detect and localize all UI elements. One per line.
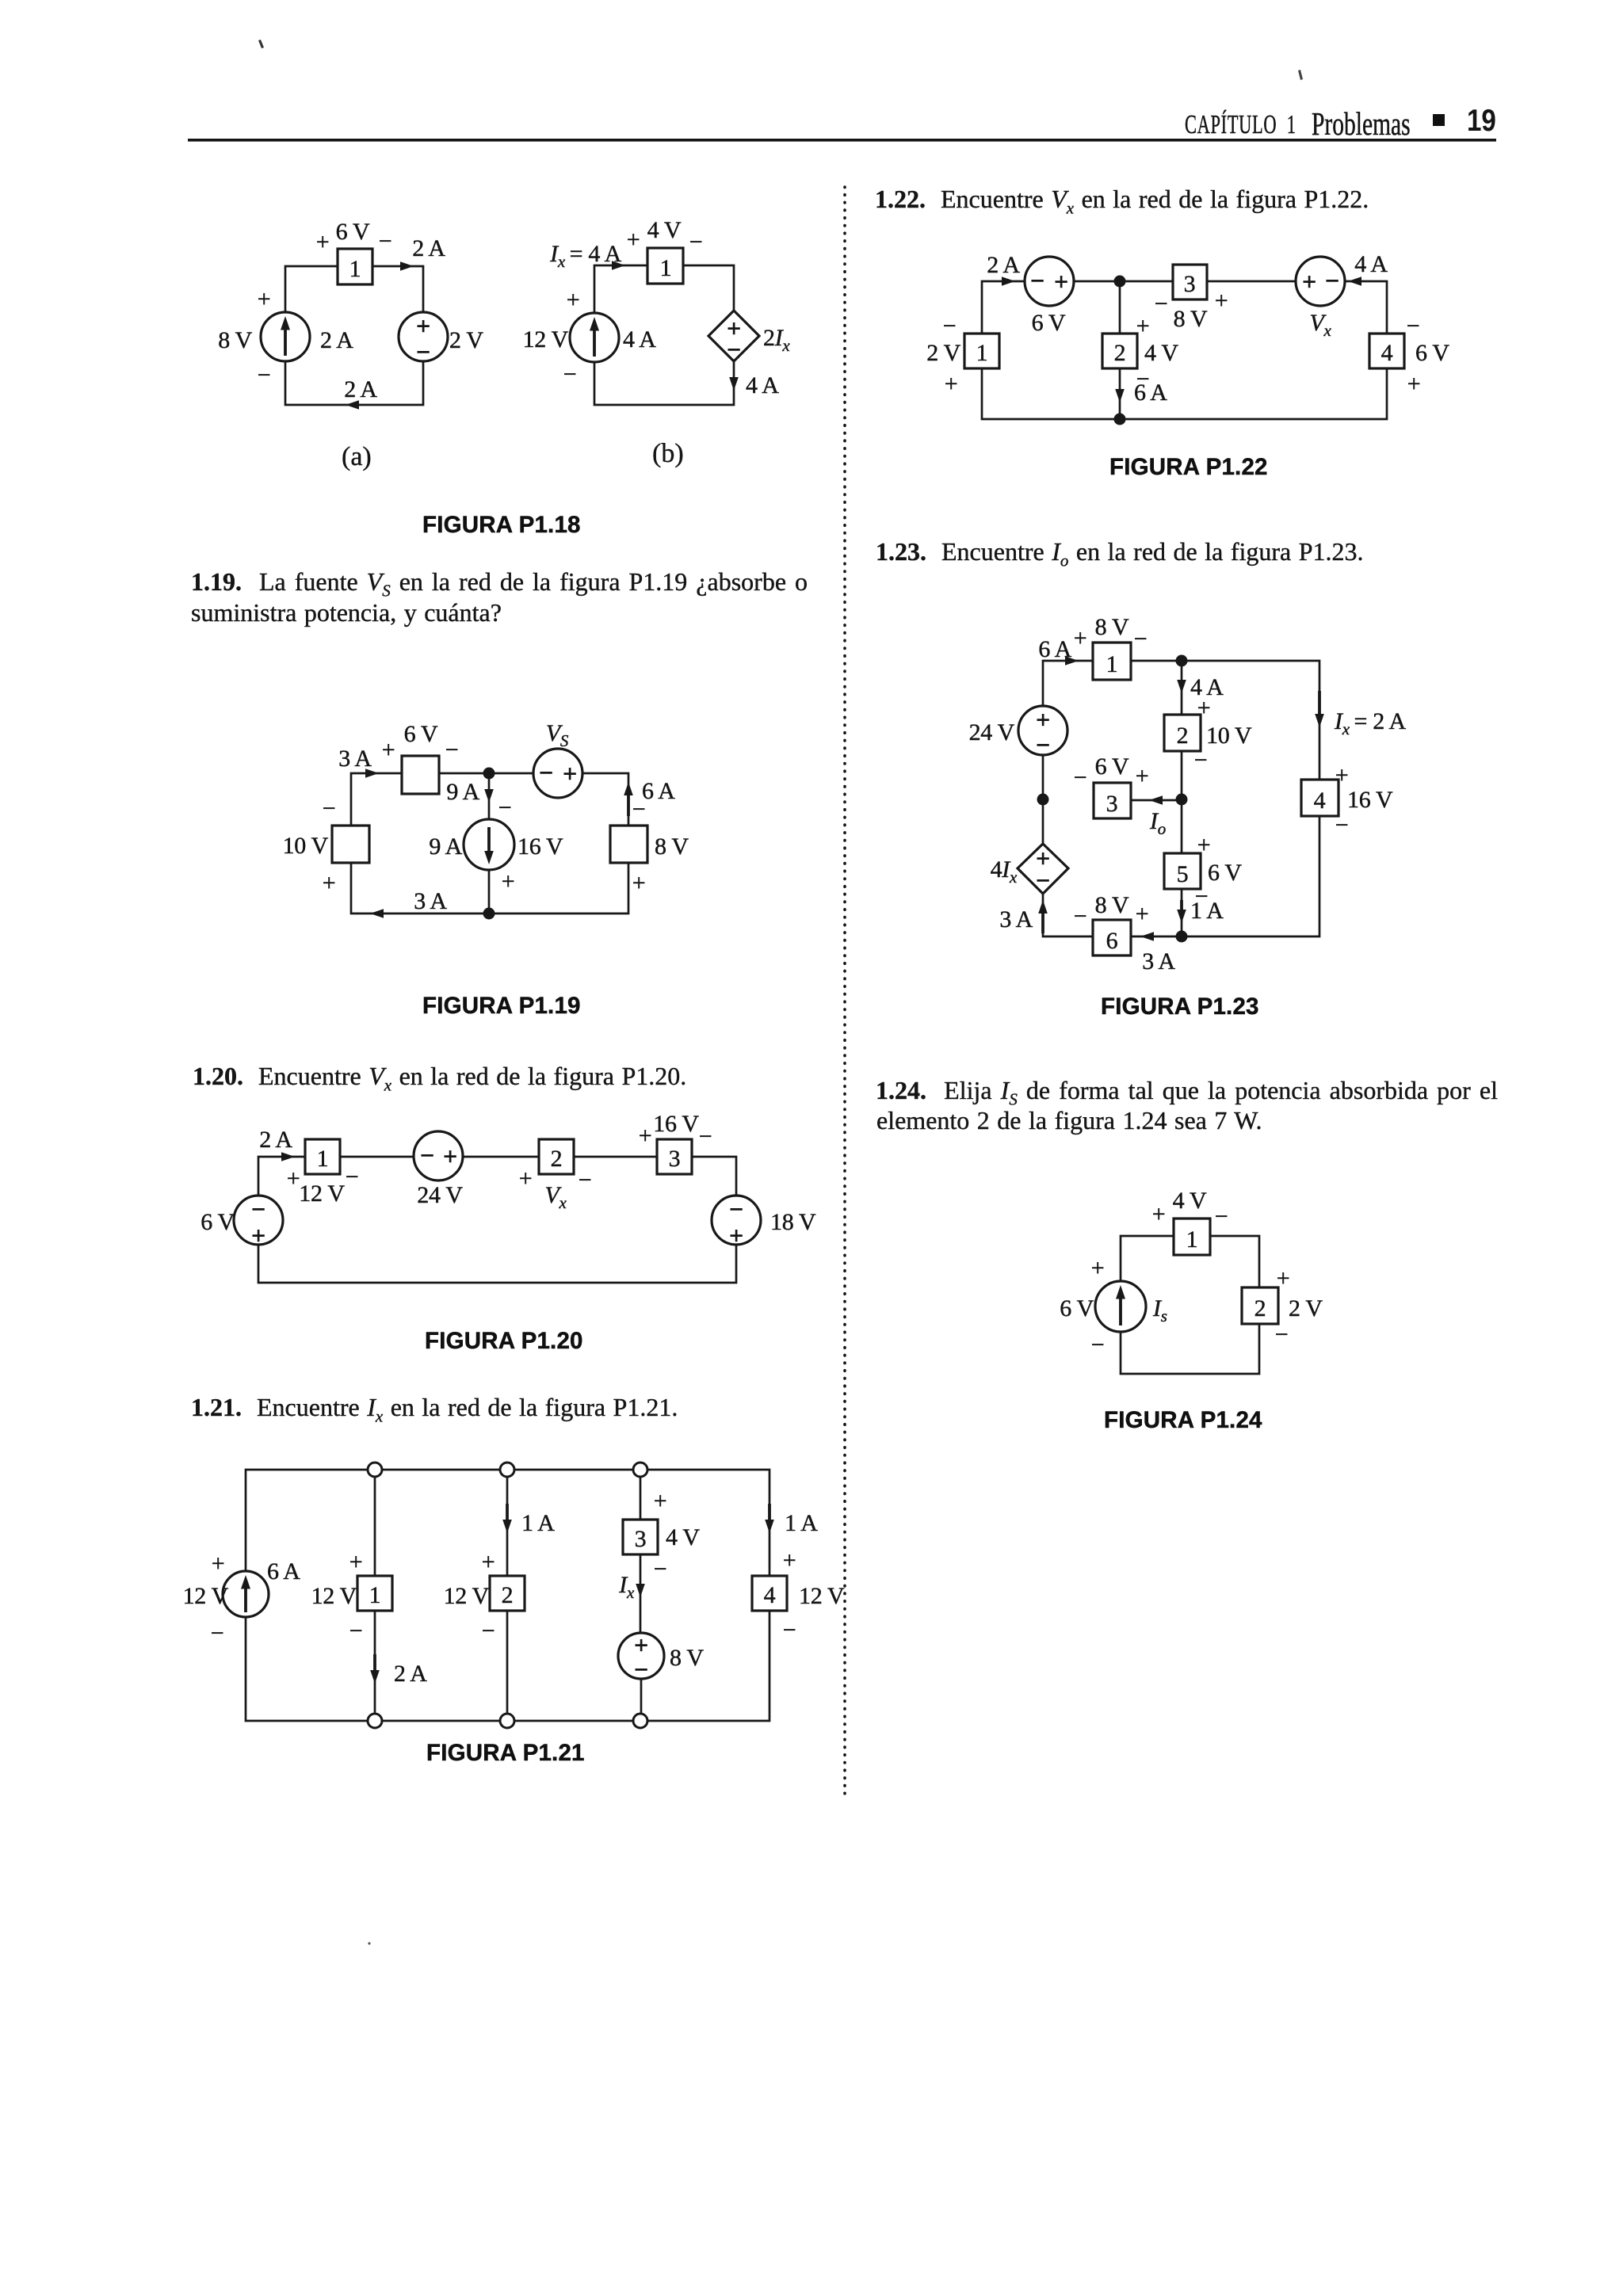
svg-text:+: + xyxy=(1302,267,1316,296)
svg-text:Ix = 4 A: Ix = 4 A xyxy=(549,241,622,271)
svg-text:1 A: 1 A xyxy=(1190,898,1224,924)
problem 1.19 text xyxy=(191,566,808,597)
svg-text:+: + xyxy=(287,1165,300,1192)
svg-text:−: − xyxy=(349,1618,363,1644)
svg-text:8 V: 8 V xyxy=(670,1645,704,1671)
svg-text:3: 3 xyxy=(635,1526,647,1552)
arrow 2A top wire xyxy=(1002,277,1015,286)
svg-text:+: + xyxy=(1036,705,1050,734)
svg-text:6 V: 6 V xyxy=(404,721,438,747)
wires P1.24 xyxy=(1121,1236,1259,1374)
element box 3 xyxy=(1173,265,1207,299)
svg-text:12 V: 12 V xyxy=(799,1583,845,1609)
svg-text:Vx: Vx xyxy=(1309,310,1331,340)
svg-text:4 V: 4 V xyxy=(1144,340,1178,366)
arrow 4A right wire xyxy=(729,377,739,391)
svg-text:2 A: 2 A xyxy=(259,1127,292,1153)
svg-text:12 V: 12 V xyxy=(444,1583,490,1609)
element box 4 xyxy=(1301,780,1338,816)
svg-text:−: − xyxy=(943,313,957,339)
svg-text:−: − xyxy=(563,361,577,387)
element box 1 xyxy=(338,249,372,284)
svg-text:−: − xyxy=(1155,291,1168,317)
arrow Ix right wire xyxy=(1315,714,1324,727)
svg-text:6 V: 6 V xyxy=(1415,340,1449,366)
svg-text:2 A: 2 A xyxy=(412,235,445,261)
svg-text:1: 1 xyxy=(1186,1226,1198,1253)
svg-text:16 V: 16 V xyxy=(653,1111,699,1137)
svg-text:3: 3 xyxy=(669,1146,681,1172)
svg-text:2 A: 2 A xyxy=(394,1661,427,1687)
svg-text:−: − xyxy=(416,338,430,366)
svg-text:−: − xyxy=(482,1618,495,1644)
arrow 2A top wire xyxy=(400,261,414,271)
svg-text:+: + xyxy=(519,1165,533,1192)
svg-text:8 V: 8 V xyxy=(1174,306,1208,332)
svg-text:Io: Io xyxy=(1149,808,1166,838)
svg-text:−: − xyxy=(346,1164,359,1190)
svg-text:8 V: 8 V xyxy=(655,833,689,860)
column separator dotted line xyxy=(843,187,846,1797)
element box 4 xyxy=(752,1576,787,1611)
svg-text:+: + xyxy=(1136,901,1149,927)
svg-text:+: + xyxy=(945,371,958,397)
element box 2 xyxy=(539,1139,574,1174)
arrow 6A xyxy=(1115,389,1125,402)
svg-text:−: − xyxy=(783,1617,796,1643)
svg-text:−: − xyxy=(323,795,336,822)
svg-text:10 V: 10 V xyxy=(1206,723,1252,749)
svg-text:2 A: 2 A xyxy=(344,376,377,402)
svg-text:−: − xyxy=(1215,1203,1228,1230)
element box 3 xyxy=(657,1139,692,1174)
svg-text:1: 1 xyxy=(1106,651,1118,677)
svg-text:−: − xyxy=(1335,812,1349,838)
dependent source 4Ix diamond xyxy=(1018,844,1068,894)
svg-text:12 V: 12 V xyxy=(299,1180,345,1207)
svg-text:6 A: 6 A xyxy=(267,1558,300,1585)
svg-text:1 A: 1 A xyxy=(521,1510,555,1536)
svg-text:3 A: 3 A xyxy=(338,746,372,772)
element box 1 xyxy=(647,248,683,284)
arrow 2A bottom wire xyxy=(346,400,359,410)
svg-text:+: + xyxy=(1054,267,1068,296)
svg-text:−: − xyxy=(1030,266,1044,295)
svg-text:6 V: 6 V xyxy=(1208,860,1242,886)
node bottom 2 xyxy=(500,1714,514,1728)
voltage source 6V xyxy=(1025,257,1074,306)
svg-text:1: 1 xyxy=(976,340,988,366)
svg-text:+: + xyxy=(251,1221,265,1249)
svg-text:3: 3 xyxy=(1106,791,1118,817)
problem 1.20 text xyxy=(193,1061,686,1092)
node bottom xyxy=(1176,931,1188,943)
svg-text:+: + xyxy=(212,1550,225,1577)
svg-text:+: + xyxy=(443,1142,457,1170)
element box 3 xyxy=(623,1520,658,1554)
svg-text:Is: Is xyxy=(1152,1295,1167,1325)
voltage source 6V xyxy=(234,1196,283,1245)
element box 1 xyxy=(1093,643,1131,680)
node top middle xyxy=(483,768,495,780)
svg-text:3 A: 3 A xyxy=(1142,948,1175,974)
svg-text:+: + xyxy=(316,229,330,255)
arrow 1A xyxy=(1177,910,1186,923)
svg-text:24 V: 24 V xyxy=(417,1182,463,1208)
svg-text:−: − xyxy=(579,1167,592,1193)
svg-text:Vx: Vx xyxy=(544,1182,567,1212)
node top 3 xyxy=(633,1463,647,1477)
svg-text:2 V: 2 V xyxy=(1289,1295,1323,1322)
svg-text:+: + xyxy=(1197,695,1211,721)
svg-text:1: 1 xyxy=(369,1582,381,1608)
node bottom 3 xyxy=(633,1714,647,1728)
element box 8V right xyxy=(610,826,647,863)
svg-text:+: + xyxy=(502,868,515,894)
svg-text:+: + xyxy=(258,286,271,312)
svg-text:4 V: 4 V xyxy=(666,1524,700,1550)
current source 12V 4A xyxy=(570,313,619,362)
svg-text:12 V: 12 V xyxy=(523,326,569,353)
arrow 2A xyxy=(370,1670,380,1684)
svg-text:−: − xyxy=(699,1123,712,1150)
node bottom 1 xyxy=(368,1714,382,1728)
page header text xyxy=(1185,110,1296,140)
svg-text:−: − xyxy=(1194,747,1208,773)
svg-text:−: − xyxy=(727,335,741,364)
svg-text:+: + xyxy=(639,1123,652,1149)
svg-text:−: − xyxy=(632,796,646,822)
current source 8V 2A xyxy=(261,312,310,361)
node mid xyxy=(1176,794,1188,806)
svg-text:10 V: 10 V xyxy=(283,833,329,859)
svg-text:+: + xyxy=(1407,371,1421,397)
svg-text:+: + xyxy=(1335,762,1349,788)
element box 1 xyxy=(357,1576,392,1611)
problem 1.21 text xyxy=(191,1392,678,1423)
svg-text:+: + xyxy=(632,870,646,896)
svg-text:−: − xyxy=(211,1620,224,1646)
element box 4 xyxy=(1369,334,1404,368)
svg-text:4: 4 xyxy=(1314,788,1326,814)
node top xyxy=(1114,276,1126,288)
voltage source 24V xyxy=(414,1131,463,1180)
voltage source 2V xyxy=(399,312,448,361)
svg-text:4Ix: 4Ix xyxy=(991,856,1018,887)
svg-text:Ix = 2 A: Ix = 2 A xyxy=(1334,708,1407,738)
problem 1.24 text xyxy=(876,1075,1498,1106)
element box 5 xyxy=(1164,853,1201,889)
svg-text:+: + xyxy=(1091,1255,1105,1281)
element box 1 xyxy=(1174,1219,1210,1255)
scan speck top-left xyxy=(258,40,264,48)
header square bullet xyxy=(1433,114,1445,126)
svg-text:−: − xyxy=(654,1556,667,1582)
svg-text:+: + xyxy=(1215,288,1228,314)
svg-text:−: − xyxy=(498,795,512,821)
node bottom xyxy=(1114,414,1126,425)
wires P1.20 xyxy=(258,1157,736,1283)
element box 10V left xyxy=(332,826,369,863)
svg-text:2: 2 xyxy=(551,1146,563,1172)
arrow Io xyxy=(1149,795,1163,805)
svg-text:−: − xyxy=(539,758,553,787)
arrow 4A xyxy=(1177,680,1186,693)
voltage source VS xyxy=(533,749,582,798)
svg-text:+: + xyxy=(482,1549,495,1575)
scan speck bottom-left xyxy=(368,1942,370,1944)
node top 2 xyxy=(500,1463,514,1477)
sub-figure labels xyxy=(342,444,372,471)
svg-text:2: 2 xyxy=(1254,1295,1266,1322)
svg-text:+: + xyxy=(1136,313,1150,339)
voltage source Vx xyxy=(1296,257,1345,306)
svg-text:2 A: 2 A xyxy=(320,327,353,353)
element box 6 xyxy=(1093,920,1131,955)
svg-text:3: 3 xyxy=(1184,271,1196,297)
svg-text:4 A: 4 A xyxy=(623,326,656,353)
element box 1 xyxy=(964,334,999,368)
svg-text:−: − xyxy=(689,229,703,255)
svg-text:2 A: 2 A xyxy=(987,252,1020,278)
svg-text:+: + xyxy=(563,759,577,788)
arrow 4A top wire xyxy=(1348,277,1361,286)
svg-text:−: − xyxy=(379,228,392,254)
svg-text:9 A: 9 A xyxy=(429,833,462,860)
svg-text:4 V: 4 V xyxy=(1173,1188,1207,1214)
svg-text:4 A: 4 A xyxy=(1354,251,1388,277)
svg-text:−: − xyxy=(1407,313,1420,339)
svg-text:+: + xyxy=(567,287,580,313)
svg-text:6 V: 6 V xyxy=(1060,1295,1094,1322)
node left mid xyxy=(1037,794,1049,806)
current source 9A 16V xyxy=(464,819,514,870)
svg-text:6: 6 xyxy=(1106,928,1118,954)
svg-text:4 V: 4 V xyxy=(647,217,682,243)
svg-text:2: 2 xyxy=(1177,723,1189,749)
node top 1 xyxy=(368,1463,382,1477)
svg-text:6 V: 6 V xyxy=(1032,310,1066,336)
wires P1.23 xyxy=(1043,661,1319,936)
svg-text:16 V: 16 V xyxy=(517,833,563,860)
svg-text:−: − xyxy=(1074,765,1087,791)
element box 2 xyxy=(1242,1287,1278,1324)
element box 2 xyxy=(490,1576,525,1611)
svg-text:6 V: 6 V xyxy=(336,219,370,245)
svg-text:24 V: 24 V xyxy=(969,719,1015,746)
svg-text:4 A: 4 A xyxy=(746,372,779,399)
svg-text:2: 2 xyxy=(502,1582,514,1608)
voltage source 18V xyxy=(712,1196,761,1245)
svg-text:+: + xyxy=(783,1547,796,1573)
dependent source 2Ix diamond xyxy=(708,311,759,361)
element box 2 xyxy=(1164,715,1201,751)
svg-text:+: + xyxy=(1074,625,1087,651)
arrow 6A top wire xyxy=(1065,656,1079,666)
svg-text:2Ix: 2Ix xyxy=(763,325,790,355)
element box 2 xyxy=(1102,334,1137,368)
svg-text:−: − xyxy=(251,1195,265,1223)
element box 6V top xyxy=(402,756,439,794)
arrow 3A up xyxy=(1038,900,1048,913)
svg-text:8 V: 8 V xyxy=(1095,614,1129,640)
svg-text:4: 4 xyxy=(1381,340,1393,366)
svg-text:−: − xyxy=(445,737,459,763)
scan speck top-right xyxy=(1298,70,1303,80)
current source 6V Is xyxy=(1095,1281,1146,1332)
arrow 3A bottom wire xyxy=(1140,932,1154,941)
svg-text:−: − xyxy=(420,1141,434,1169)
page number 19 xyxy=(1467,109,1496,133)
svg-text:−: − xyxy=(634,1655,648,1684)
svg-text:+: + xyxy=(1152,1201,1166,1227)
svg-text:8 V: 8 V xyxy=(218,327,252,353)
svg-text:3 A: 3 A xyxy=(414,888,447,914)
figure captions xyxy=(422,512,581,539)
svg-text:−: − xyxy=(1275,1322,1289,1348)
arrow Ix top wire xyxy=(612,261,625,270)
svg-text:−: − xyxy=(1091,1332,1105,1358)
svg-text:−: − xyxy=(1134,626,1148,652)
svg-text:12 V: 12 V xyxy=(183,1583,229,1609)
svg-text:12 V: 12 V xyxy=(311,1583,357,1609)
svg-text:+: + xyxy=(323,870,336,896)
svg-text:−: − xyxy=(1036,866,1050,894)
svg-text:3 A: 3 A xyxy=(999,906,1033,933)
voltage source 8V xyxy=(618,1633,664,1679)
arrow 2A top wire xyxy=(281,1152,295,1161)
svg-text:−: − xyxy=(1036,730,1050,759)
svg-text:+: + xyxy=(729,1221,743,1249)
svg-text:−: − xyxy=(1325,266,1339,295)
svg-text:1: 1 xyxy=(317,1146,329,1172)
svg-text:8 V: 8 V xyxy=(1095,892,1129,918)
svg-text:4: 4 xyxy=(764,1582,776,1608)
arrow Ix xyxy=(636,1584,645,1597)
wire loop P1.18b xyxy=(594,265,734,405)
svg-text:−: − xyxy=(258,362,271,388)
element box 3 xyxy=(1094,783,1131,818)
svg-text:+: + xyxy=(1277,1265,1290,1291)
svg-text:−: − xyxy=(1074,903,1087,929)
svg-text:Ix: Ix xyxy=(618,1572,635,1602)
svg-text:6 A: 6 A xyxy=(642,778,675,804)
arrow 3A top wire xyxy=(365,769,379,778)
svg-text:1: 1 xyxy=(349,256,361,282)
svg-text:6 A: 6 A xyxy=(1134,379,1167,406)
svg-text:+: + xyxy=(382,737,395,763)
wire loop P1.18a xyxy=(285,266,423,405)
svg-text:+: + xyxy=(1136,763,1149,789)
current source 12V 6A xyxy=(223,1571,269,1617)
node bottom middle xyxy=(483,908,495,920)
svg-text:VS: VS xyxy=(546,720,569,750)
svg-text:2: 2 xyxy=(1114,340,1126,366)
svg-text:2 V: 2 V xyxy=(926,340,960,366)
arrow 9A down xyxy=(484,789,494,803)
arrow 3A bottom wire xyxy=(370,909,384,918)
svg-text:+: + xyxy=(416,311,430,340)
svg-text:1: 1 xyxy=(660,255,672,281)
element box 1 xyxy=(305,1139,340,1174)
problem 1.22 text xyxy=(875,184,1369,215)
svg-text:−: − xyxy=(729,1195,743,1223)
problem 1.23 text xyxy=(876,536,1364,567)
svg-text:6 V: 6 V xyxy=(1095,753,1129,780)
arrow 1A branch4 xyxy=(765,1520,774,1533)
svg-text:6 V: 6 V xyxy=(200,1209,235,1235)
wires P1.22 xyxy=(982,281,1387,419)
wires P1.19 xyxy=(351,773,628,913)
wires P1.21 xyxy=(246,1470,769,1721)
svg-text:+: + xyxy=(627,227,640,253)
arrow 1A branch2 xyxy=(502,1520,512,1533)
svg-text:1 A: 1 A xyxy=(785,1510,818,1536)
header rule xyxy=(188,139,1496,142)
svg-text:+: + xyxy=(654,1488,667,1514)
svg-text:16 V: 16 V xyxy=(1347,787,1393,813)
voltage source 24V xyxy=(1018,706,1067,755)
svg-text:9 A: 9 A xyxy=(446,779,479,805)
svg-text:2 V: 2 V xyxy=(449,327,483,353)
node top xyxy=(1176,655,1188,667)
arrow 6A up right wire xyxy=(624,782,633,795)
svg-text:5: 5 xyxy=(1177,861,1189,887)
svg-text:+: + xyxy=(349,1549,363,1575)
svg-text:18 V: 18 V xyxy=(770,1209,816,1235)
